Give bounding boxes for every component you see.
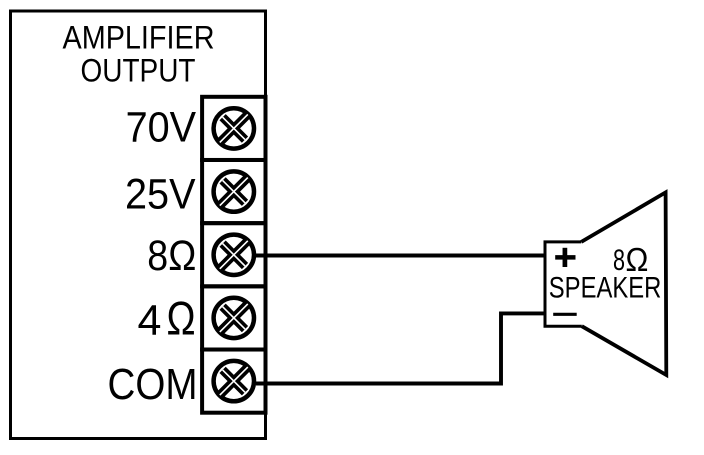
svg-text:Ω: Ω xyxy=(167,293,196,346)
svg-text:COM: COM xyxy=(108,361,198,409)
svg-text:25V: 25V xyxy=(125,171,196,219)
svg-text:8: 8 xyxy=(613,245,625,277)
svg-text:4: 4 xyxy=(138,297,162,345)
svg-text:70V: 70V xyxy=(126,104,197,152)
svg-text:OUTPUT: OUTPUT xyxy=(81,53,196,89)
svg-text:Ω: Ω xyxy=(626,242,649,279)
svg-text:AMPLIFIER: AMPLIFIER xyxy=(63,19,215,56)
svg-text:8Ω: 8Ω xyxy=(147,232,196,280)
